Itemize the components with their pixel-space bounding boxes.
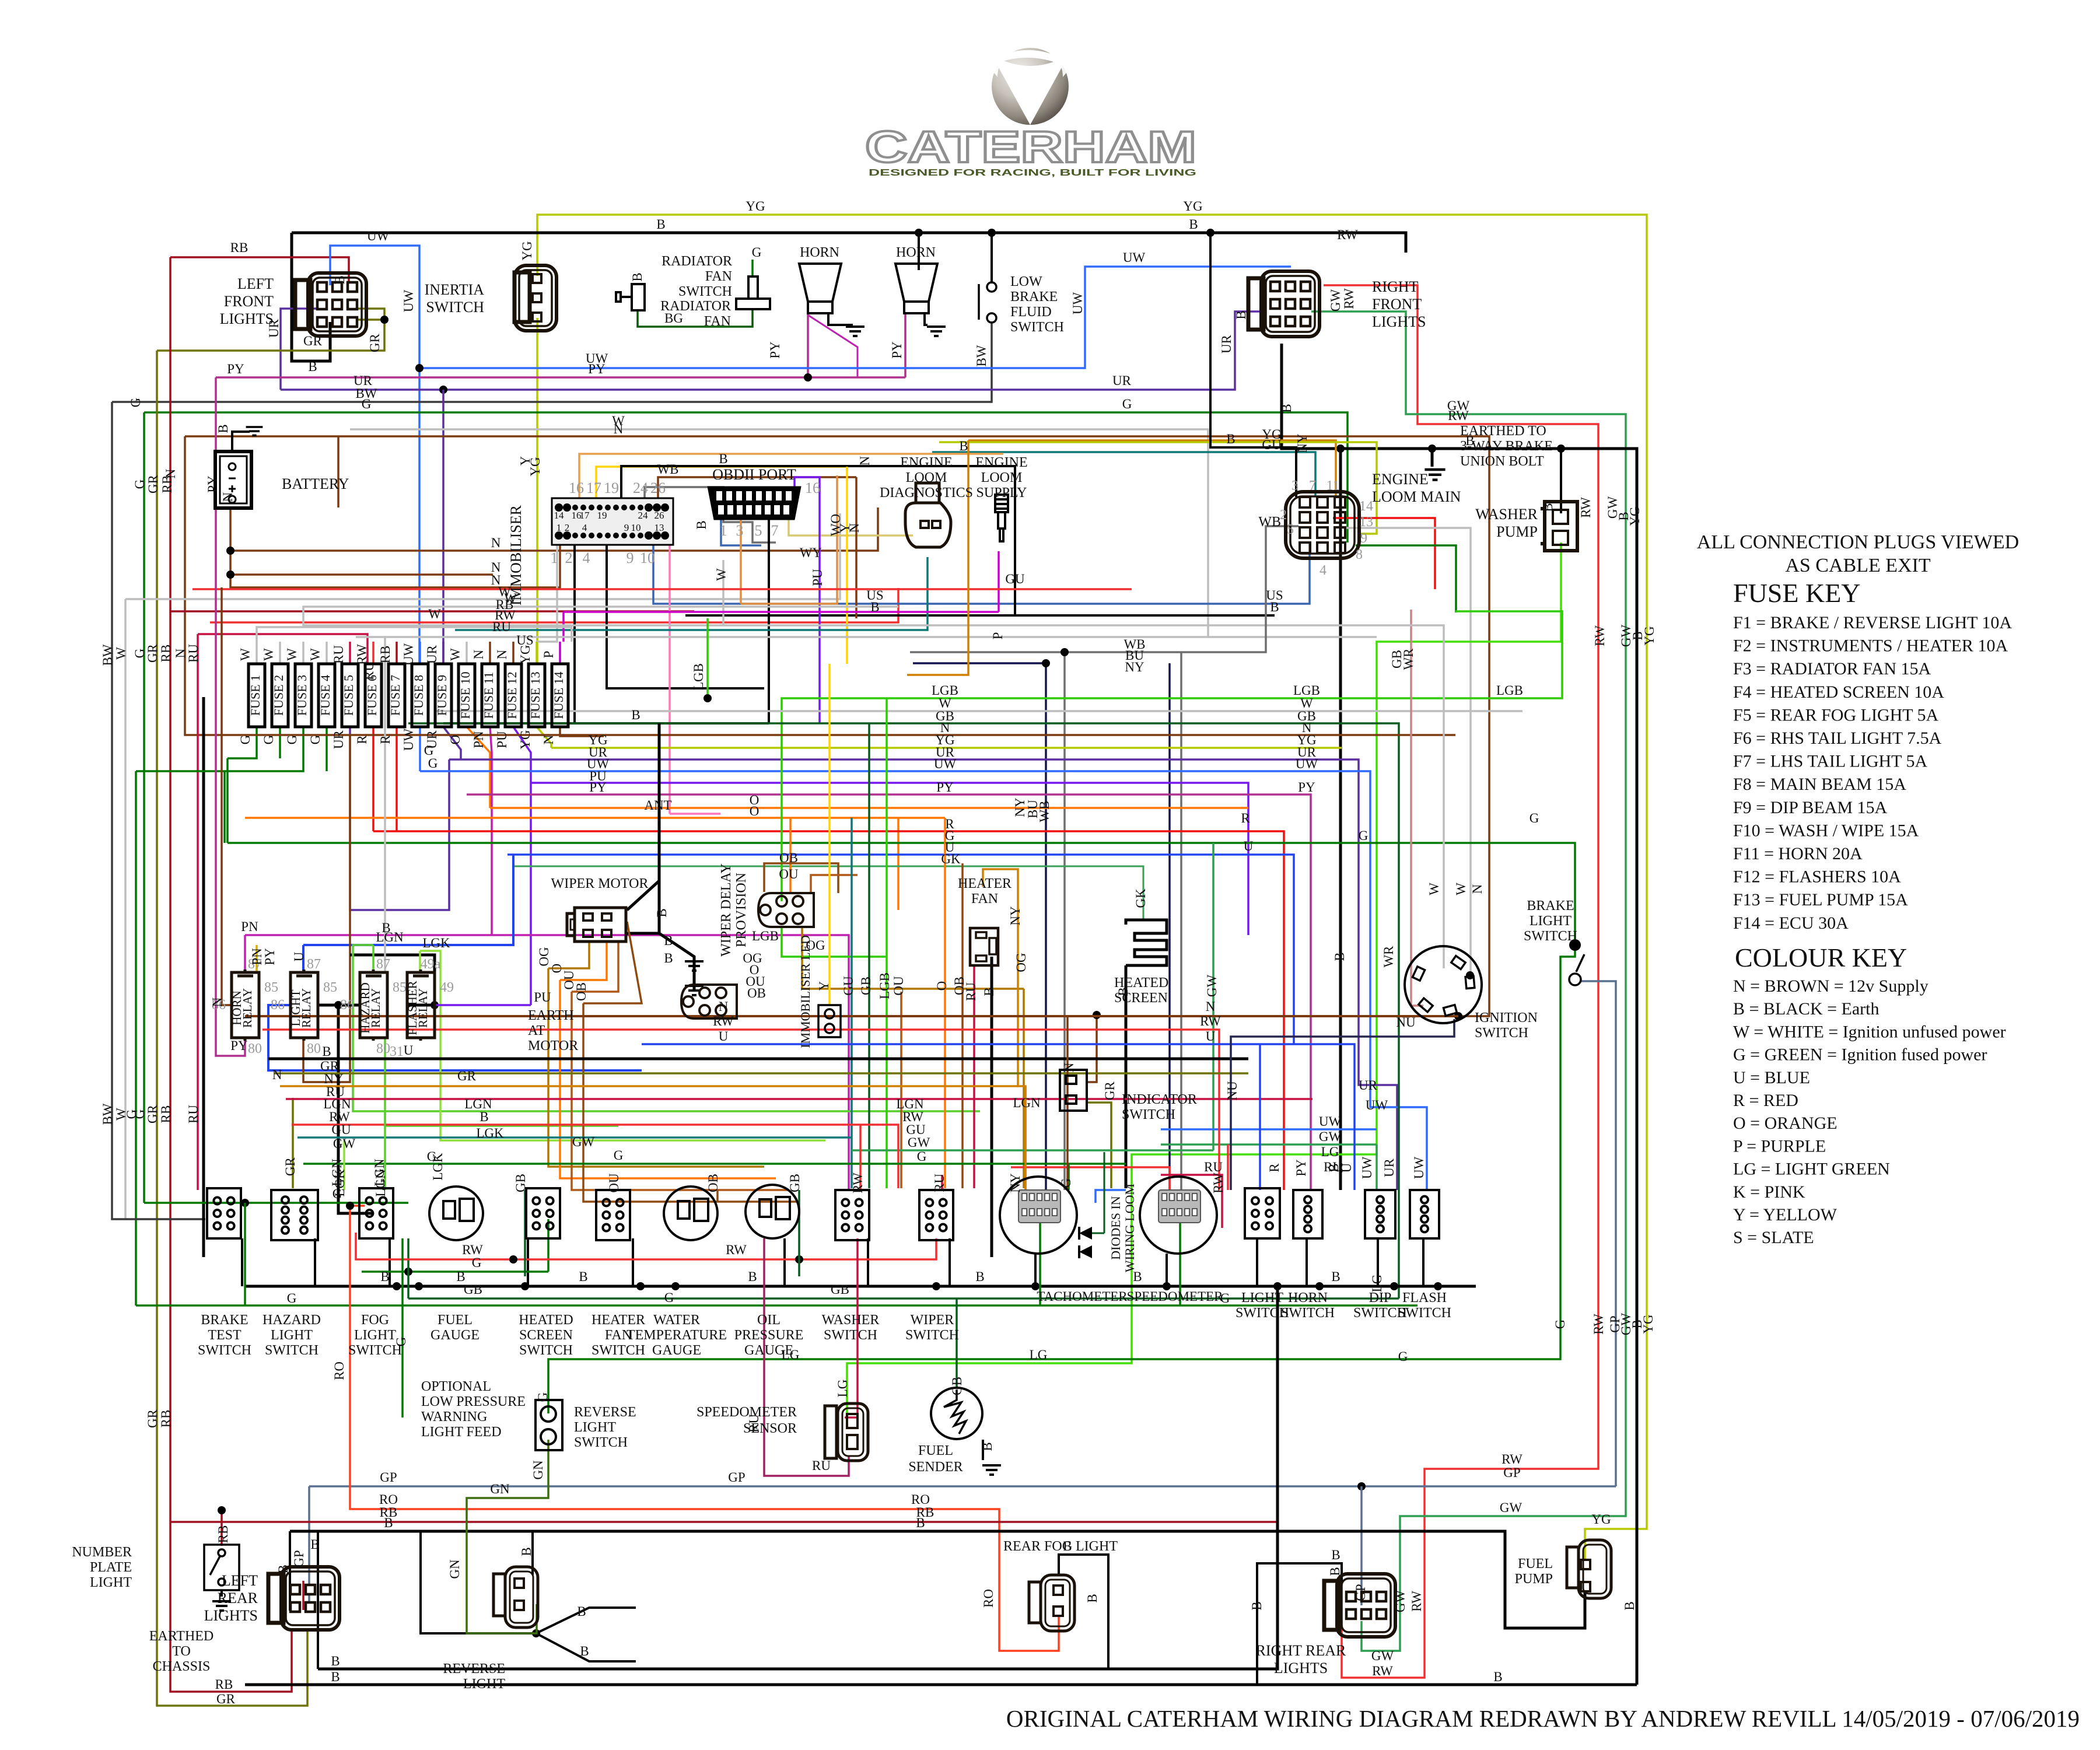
- radiator fan switch: [736, 276, 770, 309]
- svg-text:LGK: LGK: [422, 936, 450, 950]
- svg-text:WIPER MOTOR: WIPER MOTOR: [551, 876, 649, 891]
- svg-text:FUSE 1: FUSE 1: [248, 675, 262, 716]
- svg-text:LOW: LOW: [1010, 274, 1042, 289]
- wire B left frame: [202, 697, 205, 1257]
- svg-text:WASHER: WASHER: [822, 1312, 880, 1328]
- wire WB row to engine loom: [910, 526, 1298, 652]
- svg-text:TACHOMETER: TACHOMETER: [1037, 1289, 1128, 1304]
- svg-text:B: B: [1085, 1594, 1100, 1602]
- wire junction: [988, 229, 996, 237]
- svg-text:RU: RU: [812, 1458, 831, 1473]
- wire B bottom frame 1: [318, 1286, 1277, 1669]
- brake light switch: [1569, 939, 1581, 951]
- svg-text:WIPER DELAY: WIPER DELAY: [719, 863, 734, 957]
- svg-text:YG: YG: [518, 730, 533, 749]
- svg-text:GW: GW: [1393, 1590, 1408, 1613]
- svg-text:FRONT: FRONT: [224, 293, 274, 310]
- wire GB switch feed: [798, 1190, 800, 1276]
- svg-text:SENDER: SENDER: [908, 1459, 963, 1475]
- connector right front lights: [1248, 271, 1319, 337]
- wire RU speedo: [1161, 1175, 1222, 1228]
- svg-text:LIGHTS: LIGHTS: [204, 1607, 258, 1624]
- wire BU to speedo: [1168, 663, 1171, 1190]
- svg-text:GW: GW: [1328, 289, 1343, 312]
- svg-text:B: B: [310, 1537, 319, 1552]
- wire B horn1 earth: [828, 313, 853, 325]
- svg-text:GW: GW: [333, 1136, 356, 1151]
- svg-text:BATTERY: BATTERY: [282, 475, 349, 492]
- svg-text:LGN: LGN: [373, 1169, 388, 1197]
- wire junction: [415, 364, 423, 372]
- svg-text:EARTH: EARTH: [528, 1008, 574, 1023]
- wire B reverse light feed: [531, 1531, 534, 1575]
- wire GW right frame: [1311, 311, 1626, 1651]
- fuse F14: [552, 664, 568, 727]
- wire NY switch feed: [1024, 1086, 1027, 1190]
- svg-text:RB: RB: [159, 645, 173, 663]
- wire GW switch feed: [1375, 1144, 1378, 1190]
- svg-text:FUSE 7: FUSE 7: [388, 675, 402, 716]
- svg-text:UR: UR: [1219, 334, 1234, 353]
- svg-text:G: G: [238, 735, 253, 745]
- wire PN horn relay 87: [244, 935, 246, 972]
- wire OB wiper delay: [764, 863, 838, 893]
- wire N branch: [230, 551, 493, 575]
- wire B number plate earth: [220, 1590, 223, 1597]
- svg-text:4: 4: [582, 522, 587, 533]
- svg-text:NY: NY: [1008, 906, 1023, 926]
- svg-text:RO: RO: [332, 1361, 346, 1380]
- svg-text:AS CABLE EXIT: AS CABLE EXIT: [1785, 555, 1931, 576]
- svg-text:U: U: [1244, 839, 1254, 853]
- wire B junction diagonal 1: [536, 1608, 636, 1633]
- wire LGK switch feed: [343, 1140, 345, 1190]
- svg-text:ENGINE: ENGINE: [900, 455, 952, 470]
- wire B heated screen earth: [1125, 965, 1128, 1188]
- svg-text:SWITCH: SWITCH: [824, 1328, 877, 1343]
- svg-text:SWITCH: SWITCH: [905, 1328, 959, 1343]
- wire UR fuse9 out: [443, 727, 461, 759]
- svg-text:CHASSIS: CHASSIS: [153, 1659, 211, 1674]
- wire B switch earth drop: [1377, 1238, 1379, 1286]
- horn: [799, 264, 841, 313]
- svg-text:GAUGE: GAUGE: [430, 1328, 480, 1343]
- wire P fuse 14 feed: [559, 642, 561, 664]
- wire junction: [380, 316, 388, 324]
- svg-text:RU: RU: [747, 1414, 761, 1433]
- wire RW row: [192, 588, 1132, 590]
- svg-text:SWITCH: SWITCH: [1010, 320, 1064, 335]
- svg-text:NU: NU: [1225, 1081, 1240, 1101]
- wire YG fuse 13 feed: [535, 642, 538, 664]
- svg-text:F9 = DIP BEAM 15A: F9 = DIP BEAM 15A: [1733, 798, 1888, 817]
- svg-text:OBDII PORT: OBDII PORT: [712, 466, 796, 483]
- svg-text:RELAY: RELAY: [299, 988, 313, 1028]
- svg-text:FLASH: FLASH: [1402, 1290, 1447, 1305]
- wire R fuse7 out: [395, 727, 398, 831]
- wire B switch earth drop: [783, 1238, 786, 1286]
- svg-text:PN: PN: [471, 731, 486, 748]
- wire RB left rear pin: [302, 1581, 304, 1610]
- svg-text:LG: LG: [835, 1380, 850, 1398]
- svg-text:B: B: [1465, 433, 1474, 448]
- svg-text:9: 9: [1360, 531, 1367, 546]
- svg-text:UR: UR: [331, 730, 346, 749]
- wire junction: [241, 1199, 249, 1207]
- wire W bus: [350, 429, 1208, 637]
- fuse F2: [272, 664, 288, 727]
- svg-text:RU: RU: [492, 619, 511, 634]
- svg-text:UW: UW: [1412, 1157, 1426, 1179]
- svg-text:U = BLUE: U = BLUE: [1733, 1068, 1810, 1087]
- svg-text:INERTIA: INERTIA: [425, 281, 485, 298]
- svg-text:RU: RU: [1204, 1160, 1223, 1174]
- svg-text:FUSE 8: FUSE 8: [411, 675, 426, 716]
- switch hazard light switch: [271, 1190, 318, 1240]
- svg-text:HAZARD: HAZARD: [262, 1312, 321, 1328]
- svg-text:GP: GP: [380, 1470, 397, 1485]
- wire PN horn diagonal: [808, 315, 857, 377]
- svg-text:B: B: [322, 1044, 331, 1059]
- svg-text:HEATED: HEATED: [519, 1312, 573, 1328]
- svg-text:P = PURPLE: P = PURPLE: [1733, 1136, 1826, 1156]
- svg-text:ALL CONNECTION PLUGS VIEWED: ALL CONNECTION PLUGS VIEWED: [1697, 531, 2019, 553]
- wire OU switch feed: [617, 1189, 619, 1191]
- svg-text:DIAGNOSTICS: DIAGNOSTICS: [880, 485, 973, 501]
- svg-text:P: P: [541, 651, 556, 659]
- wire junction: [415, 1282, 423, 1290]
- wire junction: [521, 1282, 529, 1290]
- connector heater fan: [970, 928, 998, 965]
- svg-text:GW: GW: [1319, 1129, 1342, 1144]
- wire OG wiper: [548, 942, 589, 968]
- wire RW gauge link: [356, 1233, 936, 1259]
- svg-text:B: B: [630, 272, 645, 281]
- svg-text:B: B: [1331, 1269, 1340, 1284]
- wire WB to speedo: [1180, 652, 1182, 1190]
- svg-text:INDICATOR: INDICATOR: [1122, 1092, 1197, 1107]
- wire P row: [563, 611, 999, 613]
- wire LGN hazard relay: [372, 945, 374, 972]
- Caterham logo emblem: [992, 32, 1069, 125]
- svg-text:G: G: [664, 1290, 674, 1305]
- connector right rear lights: [1324, 1574, 1395, 1637]
- wire B bottom frame 2: [245, 1683, 1637, 1686]
- wire PU mid bus: [531, 783, 1248, 935]
- wire RW main bus: [262, 1030, 1219, 1190]
- svg-text:F12 = FLASHERS 10A: F12 = FLASHERS 10A: [1733, 867, 1901, 887]
- svg-text:RELAY: RELAY: [240, 988, 254, 1028]
- svg-text:B: B: [308, 359, 317, 374]
- svg-text:GW: GW: [1205, 975, 1219, 998]
- switch fog light switch: [359, 1188, 393, 1238]
- svg-text:PY: PY: [1298, 780, 1315, 794]
- svg-text:RIGHT: RIGHT: [1372, 278, 1419, 295]
- wire P to fuse 14: [562, 612, 565, 642]
- switch dip switch: [1365, 1190, 1395, 1238]
- svg-text:OB: OB: [747, 986, 766, 1000]
- wire LGB bus: [782, 611, 1562, 901]
- svg-text:W: W: [285, 648, 299, 661]
- wire G row to heated screen switch: [362, 1270, 548, 1273]
- wire junction: [795, 1255, 803, 1263]
- wire B switch earth drop: [527, 1238, 529, 1286]
- svg-text:NU: NU: [1396, 1015, 1416, 1030]
- svg-text:FUEL: FUEL: [437, 1312, 473, 1328]
- connector reverse light: [494, 1567, 538, 1627]
- svg-text:R = RED: R = RED: [1733, 1091, 1798, 1110]
- svg-text:SUPPLY: SUPPLY: [977, 485, 1027, 501]
- svg-text:U: U: [292, 951, 306, 961]
- svg-text:LGN: LGN: [376, 930, 404, 944]
- svg-text:F10 = WASH / WIPE 15A: F10 = WASH / WIPE 15A: [1733, 821, 1919, 840]
- wire G left margin 2: [135, 771, 137, 1305]
- svg-text:REAR FOG LIGHT: REAR FOG LIGHT: [1003, 1539, 1118, 1554]
- reverse light switch: [535, 1400, 562, 1450]
- svg-text:4: 4: [1319, 563, 1326, 578]
- wire junction: [1557, 444, 1565, 453]
- wire junction: [804, 373, 812, 381]
- wire RU switch feed: [941, 1175, 943, 1190]
- svg-text:LIGHT: LIGHT: [1241, 1290, 1283, 1305]
- svg-text:Y = YELLOW: Y = YELLOW: [1733, 1205, 1838, 1224]
- wire O vertical: [944, 818, 946, 1188]
- wire B low brake fluid switch feed: [991, 233, 993, 283]
- svg-text:HORN: HORN: [800, 245, 839, 260]
- wire N horn relay 86: [222, 587, 232, 1005]
- switch brake test switch: [207, 1188, 241, 1238]
- wire NY heater fan to tacho: [983, 869, 1025, 1190]
- wire WY obd to diagnostics: [789, 520, 913, 535]
- svg-text:B: B: [1541, 503, 1555, 512]
- svg-text:OU: OU: [779, 867, 799, 881]
- svg-text:LGK: LGK: [476, 1126, 504, 1140]
- svg-text:YG: YG: [528, 457, 542, 476]
- svg-text:UW: UW: [367, 229, 390, 243]
- wire BU to tacho: [913, 663, 1046, 1190]
- wire U mid bus: [508, 855, 1294, 1044]
- number plate light: [204, 1545, 239, 1590]
- wire UR bus to right front lights: [281, 311, 1260, 390]
- svg-text:RW: RW: [462, 1242, 483, 1257]
- svg-text:NUMBER: NUMBER: [72, 1545, 132, 1560]
- svg-text:COLOUR KEY: COLOUR KEY: [1735, 943, 1907, 972]
- wire B tacho earth: [1034, 1254, 1037, 1286]
- wire B top bus: [292, 233, 1406, 253]
- wire B immobiliser 19: [621, 466, 1015, 615]
- svg-text:S = SLATE: S = SLATE: [1733, 1228, 1814, 1247]
- svg-text:17: 17: [580, 510, 590, 521]
- wire GP brake switch down: [1581, 981, 1616, 1486]
- svg-text:RU: RU: [186, 1105, 201, 1123]
- wire junction: [671, 1282, 680, 1290]
- svg-text:AT: AT: [528, 1023, 545, 1038]
- wire B left join: [317, 1531, 319, 1669]
- svg-text:24: 24: [633, 480, 648, 496]
- svg-text:GN: GN: [531, 1460, 545, 1480]
- wire G long bottom bus: [136, 1304, 1417, 1307]
- svg-text:PY: PY: [768, 341, 782, 359]
- svg-text:HEATER: HEATER: [591, 1312, 645, 1328]
- svg-text:F14 = ECU 30A: F14 = ECU 30A: [1733, 914, 1849, 933]
- connector left rear lights: [268, 1567, 339, 1630]
- svg-text:LOOM MAIN: LOOM MAIN: [1372, 488, 1461, 505]
- wire BW brake fluid switch bus: [112, 321, 992, 402]
- wire UR mid bus: [449, 759, 1397, 1190]
- svg-text:B: B: [519, 1547, 534, 1556]
- svg-text:B: B: [1328, 1567, 1342, 1576]
- diode 2: [1079, 1245, 1092, 1258]
- svg-text:80: 80: [307, 1041, 321, 1056]
- wire junction: [1428, 444, 1436, 453]
- svg-text:LGB: LGB: [877, 972, 892, 999]
- svg-text:PY: PY: [205, 475, 220, 493]
- wire GR below relay: [292, 1098, 294, 1188]
- wire W obd: [722, 560, 724, 625]
- wire U light relay 87: [302, 945, 304, 972]
- svg-text:G = GREEN = Ignition fused pow: G = GREEN = Ignition fused power: [1733, 1045, 1987, 1065]
- wire PU fuse12 out: [513, 727, 531, 1005]
- wire G drop: [226, 758, 229, 843]
- svg-text:RW: RW: [726, 1242, 747, 1257]
- svg-text:B: B: [1279, 404, 1294, 412]
- svg-text:N: N: [614, 422, 624, 436]
- wire G mid bus 2: [303, 1163, 1126, 1165]
- wire GP to right rear lights: [1360, 1486, 1363, 1605]
- svg-text:PUMP: PUMP: [1496, 523, 1538, 540]
- svg-text:B: B: [1622, 1601, 1637, 1610]
- svg-text:B: B: [959, 439, 968, 453]
- svg-text:LOOM: LOOM: [906, 470, 947, 485]
- svg-text:FUSE 2: FUSE 2: [271, 675, 286, 716]
- svg-text:B: B: [656, 217, 665, 232]
- connector engine loom main: [1286, 492, 1359, 558]
- svg-text:B: B: [1332, 952, 1347, 961]
- svg-text:W: W: [1427, 883, 1441, 895]
- svg-text:85: 85: [323, 980, 337, 995]
- svg-text:RW: RW: [1501, 1452, 1522, 1466]
- fuse F10: [459, 664, 475, 727]
- switch wiper switch: [919, 1190, 953, 1240]
- svg-text:PY: PY: [936, 780, 954, 794]
- fuse F7: [388, 664, 405, 727]
- wire PY horn 2: [904, 313, 907, 377]
- svg-text:RW: RW: [1200, 1014, 1221, 1028]
- svg-text:F11 = HORN 20A: F11 = HORN 20A: [1733, 844, 1863, 863]
- wire WB to tacho: [1063, 652, 1066, 1190]
- wire junction: [430, 1001, 439, 1009]
- fuse F13: [528, 664, 545, 727]
- wire LGN bus: [353, 945, 980, 1111]
- wire UW fuse 8 feed: [419, 642, 421, 664]
- svg-text:FAN: FAN: [704, 314, 731, 329]
- svg-text:GB: GB: [950, 1377, 964, 1395]
- wire junction: [932, 1282, 940, 1290]
- wire BG radiator fan to switch: [638, 310, 752, 327]
- wire PY mid bus: [467, 794, 1311, 1190]
- wire NY engine loom: [968, 440, 1336, 497]
- svg-text:N: N: [719, 999, 729, 1014]
- svg-text:O: O: [750, 804, 759, 818]
- svg-text:G: G: [427, 1149, 437, 1164]
- svg-text:UNION BOLT: UNION BOLT: [1460, 454, 1544, 469]
- svg-text:F7 = LHS TAIL LIGHT 5A: F7 = LHS TAIL LIGHT 5A: [1733, 752, 1927, 771]
- wire GR left front lights to left loom: [157, 320, 384, 351]
- wire junction: [218, 1506, 226, 1514]
- wire U obd pin1: [721, 520, 761, 545]
- fuse F6: [365, 664, 381, 727]
- svg-text:7: 7: [1309, 478, 1316, 494]
- wire UW bus mid2: [1161, 1128, 1377, 1130]
- svg-text:RW: RW: [1592, 625, 1607, 646]
- wire O mid bus 2: [245, 817, 945, 819]
- wire B radiator fan switch: [918, 233, 920, 270]
- wire R fuse6 out: [372, 727, 374, 831]
- wire OU wiper: [572, 942, 618, 992]
- svg-text:LEFT: LEFT: [237, 275, 274, 292]
- heated screen element: [1126, 920, 1167, 965]
- svg-text:F6 = RHS TAIL LIGHT 7.5A: F6 = RHS TAIL LIGHT 7.5A: [1733, 729, 1942, 748]
- svg-text:10: 10: [631, 522, 641, 533]
- wire B switch earth drop: [1305, 1238, 1308, 1286]
- wire US bus to engine loom: [653, 534, 1310, 604]
- svg-text:B: B: [980, 1442, 995, 1451]
- svg-text:YG: YG: [1627, 506, 1642, 526]
- svg-text:OG: OG: [537, 947, 551, 966]
- svg-text:G: G: [1059, 1178, 1073, 1188]
- svg-text:DIODES IN: DIODES IN: [1108, 1196, 1123, 1259]
- wire B heater fan earth: [991, 957, 993, 1257]
- wire junction: [915, 229, 923, 237]
- wire GU engine loom: [932, 452, 1315, 497]
- svg-text:SWITCH: SWITCH: [574, 1435, 628, 1450]
- wire junction: [532, 1629, 540, 1637]
- svg-text:LIGHT: LIGHT: [271, 1328, 313, 1343]
- svg-text:OB: OB: [779, 850, 798, 865]
- svg-text:WB: WB: [657, 462, 678, 477]
- svg-text:GP: GP: [1353, 1584, 1368, 1601]
- svg-text:U: U: [719, 1029, 729, 1044]
- wire OU bus low: [572, 992, 787, 1190]
- svg-text:10: 10: [640, 549, 655, 566]
- gauge oil pressure gauge: [745, 1185, 799, 1238]
- svg-text:N: N: [541, 734, 556, 744]
- svg-text:UW: UW: [401, 729, 416, 751]
- svg-text:LIGHT: LIGHT: [354, 1328, 396, 1343]
- svg-text:B: B: [1189, 217, 1198, 232]
- svg-text:B: B: [380, 1269, 389, 1284]
- wire NY riser: [907, 440, 968, 675]
- wire B right rear: [1257, 1563, 1342, 1685]
- svg-text:PU: PU: [495, 731, 509, 748]
- switch washer switch: [835, 1190, 869, 1240]
- wire NU ignition to speedo: [1231, 1019, 1454, 1190]
- wire PY horn relay 85: [256, 945, 258, 972]
- svg-text:SWITCH: SWITCH: [519, 1343, 573, 1358]
- wire B long vertical to light switch: [1339, 449, 1342, 1190]
- svg-text:GU: GU: [841, 976, 856, 996]
- svg-text:RW: RW: [850, 1172, 865, 1193]
- svg-text:B: B: [1270, 600, 1279, 614]
- svg-text:13: 13: [654, 522, 664, 533]
- wire GK mid bus: [513, 866, 1143, 920]
- svg-text:YG: YG: [1183, 199, 1202, 213]
- wire B mid bus: [268, 1058, 1248, 1060]
- svg-text:N: N: [471, 649, 486, 659]
- svg-text:PY: PY: [589, 780, 607, 794]
- wire G fuse2: [279, 727, 281, 758]
- wire B speedo earth: [1165, 1254, 1168, 1286]
